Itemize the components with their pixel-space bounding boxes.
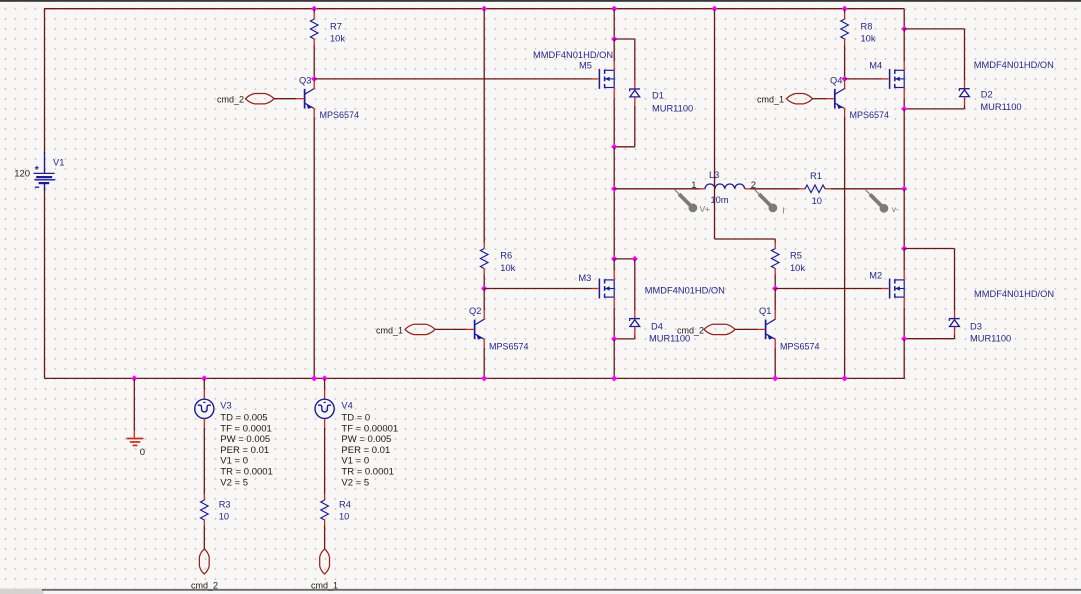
label MMDF4N01HD/ON of M4 bbox=[974, 60, 1054, 70]
junction V3 at bottom bus bbox=[201, 375, 207, 381]
wire top bus to R7 bbox=[313, 9, 315, 19]
wire bend to R5 bbox=[715, 239, 776, 249]
pin 2 of L3 bbox=[751, 180, 756, 191]
svg-text:Q3: Q3 bbox=[299, 75, 311, 85]
svg-text:V2 = 5: V2 = 5 bbox=[341, 477, 369, 488]
svg-text:cmd_1: cmd_1 bbox=[757, 95, 784, 105]
mosfet M4 bbox=[890, 69, 905, 89]
label V3 bbox=[220, 400, 231, 410]
junction Q4 emitter at bottom bus bbox=[842, 375, 848, 381]
wire Q4 emitter to bottom bus bbox=[844, 108, 846, 378]
probe V- marker bbox=[866, 190, 889, 213]
svg-text:I: I bbox=[782, 205, 784, 215]
wire top bus corner down to D2 node bbox=[903, 9, 905, 29]
svg-text:10k: 10k bbox=[500, 263, 515, 273]
wire Q1 emitter to bottom bus bbox=[774, 339, 776, 378]
label MMDF4N01HD/ON of M2 bbox=[974, 289, 1054, 299]
junction V4 at bottom bus bbox=[322, 375, 328, 381]
transistor Q4 bbox=[835, 89, 845, 109]
svg-text:PER = 0.01: PER = 0.01 bbox=[220, 445, 269, 456]
svg-text:V+: V+ bbox=[700, 204, 711, 214]
label V1 bbox=[53, 158, 64, 168]
svg-text:MUR1100: MUR1100 bbox=[980, 102, 1021, 112]
label M4 bbox=[869, 61, 882, 71]
label MPS6574 of Q1 bbox=[780, 342, 820, 352]
junction on top bus at M5 column bbox=[611, 6, 617, 12]
vertical wire top bus down at x714 bbox=[714, 9, 716, 239]
svg-text:D4: D4 bbox=[651, 321, 663, 331]
svg-text:cmd_2: cmd_2 bbox=[191, 581, 218, 591]
wire R5 node to M2 gate bbox=[775, 288, 888, 290]
wire D2 bottom branch bbox=[904, 97, 964, 109]
wire D4 top branch bbox=[614, 258, 635, 260]
label R3 bbox=[219, 500, 231, 510]
label MMDF4N01HD/ON of M5 bbox=[533, 50, 613, 60]
label cmd_1 bottom bbox=[311, 581, 338, 591]
label MPS6574 of Q4 bbox=[850, 110, 890, 120]
junction Q1 emitter at bottom bus bbox=[772, 375, 778, 381]
svg-text:PW = 0.005: PW = 0.005 bbox=[341, 434, 391, 445]
node D4 bottom junction bbox=[611, 336, 617, 342]
mosfet M3 bbox=[599, 279, 614, 299]
wire phase node down to D4 node bbox=[613, 189, 615, 259]
wire V4 to R4 bbox=[324, 418, 326, 500]
label V+ probe bbox=[700, 204, 711, 214]
label Q2 bbox=[469, 306, 481, 316]
left vertical wire from V1 (lower) bbox=[44, 190, 46, 378]
node D1 top junction bbox=[611, 36, 617, 42]
svg-text:D3: D3 bbox=[970, 321, 982, 331]
params of V4 bbox=[341, 413, 398, 489]
port cmd_2 bottom bbox=[199, 549, 209, 574]
svg-text:Q4: Q4 bbox=[830, 75, 842, 85]
wire M5 source node to phase node bbox=[613, 147, 615, 189]
wire R5 to node bbox=[774, 269, 776, 289]
svg-text:10k: 10k bbox=[330, 34, 345, 44]
wire R8 to Q4 collector bbox=[844, 39, 846, 79]
svg-text:M2: M2 bbox=[869, 271, 882, 281]
wire D3 bottom branch bbox=[904, 327, 954, 339]
svg-text:10: 10 bbox=[339, 512, 349, 522]
svg-text:R7: R7 bbox=[330, 22, 342, 32]
pulse source V4 bbox=[315, 399, 334, 418]
svg-text:V1 = 0: V1 = 0 bbox=[220, 456, 248, 467]
svg-text:V1 = 0: V1 = 0 bbox=[341, 456, 369, 467]
wire M4 source bbox=[903, 88, 905, 109]
label R5 bbox=[790, 250, 802, 260]
junction ground at bottom bus bbox=[131, 375, 137, 381]
inductor L3 bbox=[705, 184, 745, 189]
wire D4 bottom branch bbox=[614, 327, 635, 339]
svg-text:TD = 0.005: TD = 0.005 bbox=[220, 413, 267, 424]
junction on top bus at R8 bbox=[842, 6, 848, 12]
svg-text:TR = 0.0001: TR = 0.0001 bbox=[341, 467, 394, 478]
wire Q4 collector lead bbox=[844, 79, 846, 89]
resistor R6 bbox=[480, 249, 488, 269]
wire Q4 node to M4 gate bbox=[845, 78, 889, 80]
resistor R7 bbox=[310, 19, 318, 39]
svg-text:TD = 0: TD = 0 bbox=[341, 413, 370, 424]
transistor Q2 bbox=[475, 319, 485, 339]
value 10k of R8 bbox=[861, 34, 876, 44]
svg-text:10: 10 bbox=[812, 196, 822, 206]
dc source V1 bbox=[34, 152, 56, 191]
label R6 bbox=[500, 250, 512, 260]
svg-text:Q1: Q1 bbox=[759, 306, 771, 316]
bottom ground bus wire bbox=[45, 377, 905, 379]
resistor R8 bbox=[841, 19, 849, 39]
params of V3 bbox=[220, 413, 273, 489]
node phase right junction bbox=[901, 186, 907, 192]
svg-text:PW = 0.005: PW = 0.005 bbox=[220, 434, 270, 445]
wire cmd_1 port to Q4 base bbox=[813, 98, 834, 100]
label D4 bbox=[651, 321, 663, 331]
port cmd_1 at Q4 bbox=[787, 94, 813, 104]
svg-text:cmd_2: cmd_2 bbox=[677, 325, 704, 335]
junction on top bus at x714 bbox=[711, 6, 717, 12]
svg-text:Q2: Q2 bbox=[469, 306, 481, 316]
svg-text:MPS6574: MPS6574 bbox=[850, 110, 890, 120]
label MUR1100 of D4 bbox=[649, 333, 690, 343]
port cmd_1 bottom bbox=[320, 549, 330, 574]
wire M3 drain bbox=[613, 259, 615, 280]
svg-text:V3: V3 bbox=[220, 400, 231, 410]
svg-text:MMDF4N01HD/ON: MMDF4N01HD/ON bbox=[974, 60, 1054, 70]
wire R3 to cmd_2 port bbox=[203, 520, 205, 549]
svg-text:D1: D1 bbox=[652, 90, 664, 100]
wire phase right down to D3 node bbox=[903, 189, 905, 249]
svg-text:V2 = 5: V2 = 5 bbox=[220, 477, 248, 488]
diode D2 bbox=[959, 88, 969, 96]
value 10k of R7 bbox=[330, 34, 345, 44]
vertical wire top bus to R6 bbox=[483, 9, 485, 249]
label Q3 bbox=[299, 75, 311, 85]
diode D1 bbox=[630, 89, 640, 97]
svg-text:0: 0 bbox=[140, 447, 145, 458]
resistor R1 bbox=[805, 185, 825, 193]
svg-text:MUR1100: MUR1100 bbox=[970, 333, 1011, 343]
svg-text:10k: 10k bbox=[861, 34, 876, 44]
svg-text:TF = 0.0001: TF = 0.0001 bbox=[220, 423, 271, 434]
wire top bus to R8 bbox=[844, 9, 846, 19]
node D2 top junction bbox=[901, 26, 907, 32]
svg-text:MUR1100: MUR1100 bbox=[652, 103, 693, 113]
label R8 bbox=[861, 22, 873, 32]
wire phase node to L3 pin 1 bbox=[614, 188, 705, 190]
svg-text:V1: V1 bbox=[53, 158, 64, 168]
label M2 bbox=[869, 271, 882, 281]
node D1 bottom junction bbox=[611, 144, 617, 150]
wire L3 pin2 to R1 bbox=[745, 188, 805, 190]
wire D3 top branch bbox=[904, 249, 954, 319]
label MUR1100 of D1 bbox=[652, 103, 693, 113]
node D4 top junction left bbox=[611, 256, 617, 262]
value 10 of R4 bbox=[339, 512, 349, 522]
label L3 bbox=[709, 170, 719, 180]
svg-text:R4: R4 bbox=[339, 500, 351, 510]
wire D1 bottom branch bbox=[614, 97, 635, 147]
wire R6 node to M3 gate bbox=[484, 288, 598, 290]
node phase left junction bbox=[611, 186, 617, 192]
junction on top bus at R7 bbox=[311, 6, 317, 12]
svg-text:TF = 0.00001: TF = 0.00001 bbox=[341, 423, 398, 434]
node D3 top junction bbox=[901, 245, 907, 251]
window bottom edge strip bbox=[0, 589, 1081, 594]
svg-text:MMDF4N01HD/ON: MMDF4N01HD/ON bbox=[974, 289, 1054, 299]
svg-text:cmd_1: cmd_1 bbox=[376, 325, 403, 335]
ground symbol 0 bbox=[127, 439, 144, 446]
label R1 bbox=[810, 171, 822, 181]
svg-text:10k: 10k bbox=[790, 263, 805, 273]
svg-text:MPS6574: MPS6574 bbox=[320, 110, 360, 120]
svg-text:MMDF4N01HD/ON: MMDF4N01HD/ON bbox=[533, 50, 613, 60]
svg-text:MPS6574: MPS6574 bbox=[780, 342, 820, 352]
wire M5 source bbox=[613, 88, 615, 147]
svg-text:TR = 0.0001: TR = 0.0001 bbox=[220, 467, 273, 478]
value 10k of R6 bbox=[500, 263, 515, 273]
wire Q3 collector lead bbox=[313, 79, 315, 89]
svg-text:1: 1 bbox=[691, 180, 696, 191]
wire R4 to cmd_1 port bbox=[324, 520, 326, 549]
wire R1 to M4 source column bbox=[825, 188, 904, 190]
wire D1 top branch bbox=[614, 39, 635, 89]
svg-text:10: 10 bbox=[219, 512, 229, 522]
value 10m of L3 bbox=[711, 195, 729, 205]
svg-text:V4: V4 bbox=[341, 400, 352, 410]
node R5 Q1 M2 junction bbox=[772, 285, 778, 291]
junction on top bus at R6 column bbox=[481, 6, 487, 12]
svg-text:R3: R3 bbox=[219, 500, 231, 510]
svg-text:D2: D2 bbox=[981, 90, 993, 100]
svg-text:R1: R1 bbox=[810, 171, 822, 181]
label MUR1100 of D3 bbox=[970, 333, 1011, 343]
wire cmd_2 port to Q1 base bbox=[735, 328, 765, 330]
port cmd_1 at Q2 bbox=[405, 324, 435, 334]
label D2 bbox=[981, 90, 993, 100]
node D2 bottom junction bbox=[901, 106, 907, 112]
svg-text:v-: v- bbox=[892, 204, 899, 214]
label MMDF4N01HD/ON of M3 bbox=[645, 285, 725, 295]
wire M5 drain bbox=[613, 39, 615, 70]
diode D3 bbox=[949, 318, 959, 326]
label R7 bbox=[330, 22, 342, 32]
svg-text:MPS6574: MPS6574 bbox=[489, 342, 529, 352]
label cmd_2 at Q3 bbox=[217, 95, 244, 105]
wire D4 branch down bbox=[634, 259, 636, 318]
node R6 Q2 M3 junction bbox=[481, 285, 487, 291]
probe I marker bbox=[755, 190, 778, 213]
label D3 bbox=[970, 321, 982, 331]
label D1 bbox=[652, 90, 664, 100]
wire M4 source to phase right node bbox=[903, 109, 905, 189]
mosfet M5 bbox=[599, 69, 614, 89]
node Q3 collector junction bbox=[311, 76, 317, 82]
diode D4 bbox=[630, 318, 640, 326]
label 0 ground bbox=[140, 447, 145, 458]
wire Q3 emitter to bottom bus bbox=[313, 108, 315, 378]
node D3 bottom junction bbox=[901, 336, 907, 342]
node Q4 collector junction bbox=[842, 76, 848, 82]
node D4 top junction right bbox=[632, 256, 638, 262]
pulse source V3 bbox=[195, 399, 214, 418]
label cmd_1 at Q2 bbox=[376, 325, 403, 335]
left vertical wire from V1 (upper) bbox=[44, 8, 46, 153]
svg-text:cmd_2: cmd_2 bbox=[217, 95, 244, 105]
svg-text:R5: R5 bbox=[790, 250, 802, 260]
label Q1 bbox=[759, 306, 771, 316]
label M5 bbox=[579, 61, 592, 71]
wire bottom bus to V3 bbox=[203, 378, 205, 399]
wire D2 top branch bbox=[904, 29, 964, 88]
value 10 of R3 bbox=[219, 512, 229, 522]
wire M2 drain bbox=[903, 249, 905, 280]
svg-text:M5: M5 bbox=[579, 61, 592, 71]
resistor R3 bbox=[201, 500, 209, 520]
value 120 of V1 bbox=[14, 169, 30, 180]
wire Q1 collector to R5 node bbox=[774, 289, 776, 320]
svg-text:M4: M4 bbox=[869, 61, 882, 71]
value 10 of R1 bbox=[812, 196, 822, 206]
label M3 bbox=[578, 273, 591, 283]
wire M4 drain bbox=[903, 29, 905, 70]
label R4 bbox=[339, 500, 351, 510]
wire bottom bus to V4 bbox=[324, 378, 326, 399]
mosfet M2 bbox=[890, 279, 905, 299]
transistor Q3 bbox=[305, 89, 315, 109]
probe V+ marker bbox=[675, 190, 698, 213]
label MPS6574 of Q2 bbox=[489, 342, 529, 352]
resistor R5 bbox=[771, 249, 779, 269]
wire M3 source to bottom bus bbox=[613, 339, 615, 379]
transistor Q1 bbox=[766, 319, 776, 339]
value 10k of R5 bbox=[790, 263, 805, 273]
label cmd_1 at Q4 bbox=[757, 95, 784, 105]
wire Q3 node to M5 gate bbox=[314, 78, 598, 80]
port cmd_2 at Q1 bbox=[704, 324, 735, 334]
wire bottom bus to ground bbox=[133, 378, 135, 437]
junction Q3 emitter at bottom bus bbox=[311, 375, 317, 381]
label MUR1100 of D2 bbox=[980, 102, 1021, 112]
wire Q2 emitter to bottom bus bbox=[483, 339, 485, 378]
wire top bus to D1 node bbox=[613, 9, 615, 39]
port cmd_2 at Q3 bbox=[246, 94, 275, 104]
label cmd_2 at Q1 bbox=[677, 325, 704, 335]
pin 1 of L3 bbox=[691, 180, 696, 191]
svg-text:MMDF4N01HD/ON: MMDF4N01HD/ON bbox=[645, 285, 725, 295]
svg-text:120: 120 bbox=[14, 169, 30, 180]
label I probe bbox=[782, 205, 784, 215]
junction Q2 emitter at bottom bus bbox=[481, 375, 487, 381]
window top edge bar bbox=[0, 0, 1081, 2]
svg-text:R6: R6 bbox=[500, 250, 512, 260]
wire M2 source bbox=[903, 297, 905, 339]
wire M3 source bbox=[613, 297, 615, 339]
svg-text:10m: 10m bbox=[711, 195, 729, 205]
svg-text:PER = 0.01: PER = 0.01 bbox=[341, 445, 390, 456]
junction M3 source at bottom bus bbox=[611, 375, 617, 381]
label Q4 bbox=[830, 75, 842, 85]
label v- probe bbox=[892, 204, 899, 214]
wire cmd_2 port to Q3 base bbox=[274, 98, 304, 100]
svg-text:R8: R8 bbox=[861, 22, 873, 32]
wire M2 source to bottom bus corner bbox=[903, 339, 905, 379]
wire R6 to node bbox=[483, 269, 485, 289]
wire V3 to R3 bbox=[203, 418, 205, 500]
wire R7 to Q3 collector bbox=[313, 39, 315, 79]
svg-text:cmd_1: cmd_1 bbox=[311, 581, 338, 591]
label cmd_2 bottom bbox=[191, 581, 218, 591]
top horizontal supply wire bbox=[45, 8, 905, 10]
svg-text:M3: M3 bbox=[578, 273, 591, 283]
label MPS6574 of Q3 bbox=[320, 110, 360, 120]
wire Q2 collector to R6 node bbox=[483, 289, 485, 320]
label V4 bbox=[341, 400, 352, 410]
wire cmd_1 port to Q2 base bbox=[435, 328, 474, 330]
resistor R4 bbox=[321, 500, 329, 520]
